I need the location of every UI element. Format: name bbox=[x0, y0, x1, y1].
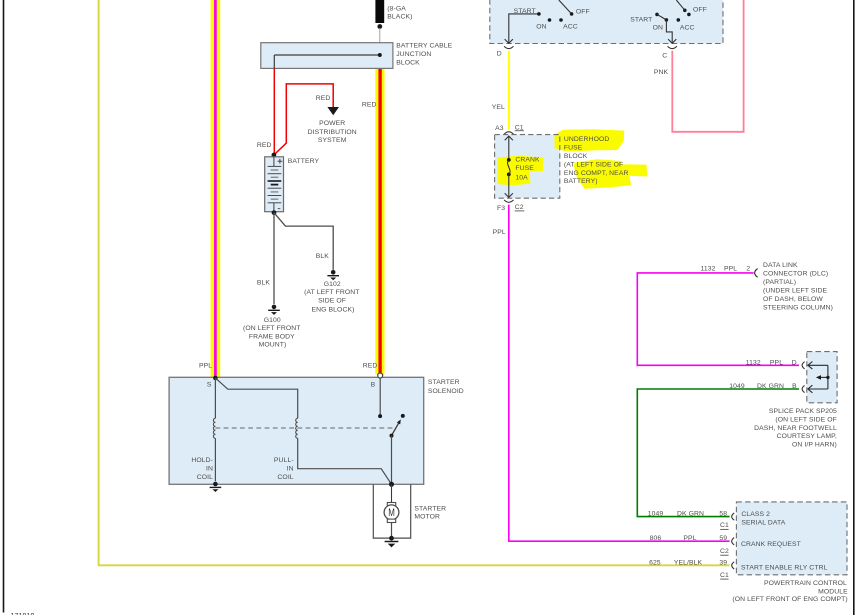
svg-text:10A: 10A bbox=[515, 175, 528, 182]
svg-text:806: 806 bbox=[650, 535, 662, 542]
svg-text:PPL: PPL bbox=[683, 535, 696, 542]
svg-text:C2: C2 bbox=[515, 204, 524, 211]
svg-text:PPL: PPL bbox=[770, 359, 783, 366]
svg-text:625: 625 bbox=[649, 559, 661, 566]
svg-text:ENG BLOCK): ENG BLOCK) bbox=[312, 306, 355, 313]
svg-text:STARTER: STARTER bbox=[428, 379, 460, 386]
svg-text:BLK: BLK bbox=[257, 280, 271, 287]
svg-text:(ON LEFT FRONT: (ON LEFT FRONT bbox=[243, 325, 301, 332]
svg-text:DISTRIBUTION: DISTRIBUTION bbox=[308, 129, 357, 136]
svg-text:FRAME BODY: FRAME BODY bbox=[249, 333, 295, 340]
svg-text:(UNDER LEFT SIDE: (UNDER LEFT SIDE bbox=[763, 288, 828, 295]
svg-text:POWER: POWER bbox=[319, 120, 345, 127]
svg-text:YEL: YEL bbox=[492, 104, 505, 111]
svg-text:BLOCK: BLOCK bbox=[564, 153, 588, 160]
svg-text:1132: 1132 bbox=[746, 359, 761, 366]
svg-text:IN: IN bbox=[206, 465, 213, 472]
svg-text:STARTER: STARTER bbox=[414, 505, 446, 512]
svg-text:C1: C1 bbox=[720, 572, 729, 579]
svg-text:SERIAL DATA: SERIAL DATA bbox=[741, 519, 785, 526]
svg-text:MODULE: MODULE bbox=[818, 589, 848, 596]
svg-text:CRANK REQUEST: CRANK REQUEST bbox=[741, 541, 801, 548]
svg-text:MOUNT): MOUNT) bbox=[259, 342, 287, 349]
svg-text:RED: RED bbox=[316, 95, 331, 102]
svg-text:PNK: PNK bbox=[654, 69, 669, 76]
svg-text:G102: G102 bbox=[324, 281, 341, 288]
svg-text:59: 59 bbox=[719, 535, 727, 542]
svg-text:S: S bbox=[207, 382, 212, 389]
svg-text:COURTESY LAMP,: COURTESY LAMP, bbox=[777, 433, 837, 440]
svg-text:UNDERHOOD: UNDERHOOD bbox=[564, 136, 609, 143]
svg-text:OFF: OFF bbox=[576, 8, 590, 15]
svg-text:PPL: PPL bbox=[724, 266, 737, 273]
svg-text:B: B bbox=[371, 382, 376, 389]
svg-text:(ON LEFT SIDE OF: (ON LEFT SIDE OF bbox=[775, 417, 837, 424]
svg-text:D: D bbox=[497, 51, 502, 58]
svg-text:DATA LINK: DATA LINK bbox=[763, 262, 798, 269]
svg-text:ON: ON bbox=[536, 24, 546, 31]
svg-text:RED: RED bbox=[257, 142, 272, 149]
svg-text:CRANK: CRANK bbox=[515, 157, 540, 164]
svg-text:BLACK): BLACK) bbox=[387, 14, 412, 21]
svg-text:SYSTEM: SYSTEM bbox=[318, 137, 347, 144]
svg-text:PPL: PPL bbox=[199, 362, 212, 369]
svg-text:START: START bbox=[630, 16, 652, 23]
svg-text:JUNCTION: JUNCTION bbox=[396, 51, 431, 58]
svg-text:C: C bbox=[662, 53, 667, 60]
svg-text:SOLENOID: SOLENOID bbox=[428, 388, 464, 395]
svg-text:G100: G100 bbox=[264, 317, 281, 324]
svg-text:(AT LEFT FRONT: (AT LEFT FRONT bbox=[304, 289, 359, 296]
svg-text:D: D bbox=[792, 359, 797, 366]
svg-text:START ENABLE RLY CTRL: START ENABLE RLY CTRL bbox=[741, 564, 828, 571]
svg-text:(ON LEFT FRONT OF ENG COMPT): (ON LEFT FRONT OF ENG COMPT) bbox=[732, 596, 847, 603]
svg-text:POWERTRAIN CONTROL: POWERTRAIN CONTROL bbox=[764, 580, 847, 587]
svg-text:START: START bbox=[514, 8, 536, 15]
svg-text:FUSE: FUSE bbox=[515, 165, 534, 172]
svg-text:CONNECTOR (DLC): CONNECTOR (DLC) bbox=[763, 271, 828, 278]
svg-text:HOLD-: HOLD- bbox=[191, 457, 213, 464]
svg-text:BLK: BLK bbox=[316, 253, 330, 260]
svg-text:MOTOR: MOTOR bbox=[414, 514, 440, 521]
svg-text:DASH, NEAR FOOTWELL: DASH, NEAR FOOTWELL bbox=[754, 425, 837, 432]
svg-text:BATTERY: BATTERY bbox=[288, 158, 320, 165]
svg-text:ENG COMPT, NEAR: ENG COMPT, NEAR bbox=[564, 170, 629, 177]
svg-text:M: M bbox=[388, 507, 395, 519]
svg-text:2: 2 bbox=[746, 266, 750, 273]
svg-text:58: 58 bbox=[719, 511, 727, 518]
svg-text:C1: C1 bbox=[720, 522, 729, 529]
svg-text:SPLICE PACK SP205: SPLICE PACK SP205 bbox=[769, 408, 837, 415]
svg-text:COIL: COIL bbox=[197, 474, 213, 481]
svg-text:1049: 1049 bbox=[648, 511, 664, 518]
svg-text:(AT LEFT SIDE OF: (AT LEFT SIDE OF bbox=[564, 161, 623, 168]
svg-text:PULL-: PULL- bbox=[274, 457, 294, 464]
svg-text:YEL/BLK: YEL/BLK bbox=[674, 559, 703, 566]
svg-text:C2: C2 bbox=[720, 548, 729, 555]
svg-text:SIDE OF: SIDE OF bbox=[318, 298, 346, 305]
svg-text:BLOCK: BLOCK bbox=[396, 59, 420, 66]
svg-text:OF DASH, BELOW: OF DASH, BELOW bbox=[763, 296, 823, 303]
svg-text:IN: IN bbox=[287, 465, 294, 472]
svg-text:PPL: PPL bbox=[493, 229, 506, 236]
svg-text:DK GRN: DK GRN bbox=[677, 511, 704, 518]
svg-text:RED: RED bbox=[363, 362, 378, 369]
svg-text:FUSE: FUSE bbox=[564, 144, 583, 151]
svg-text:STEERING COLUMN): STEERING COLUMN) bbox=[763, 305, 833, 312]
svg-text:39: 39 bbox=[719, 559, 727, 566]
svg-text:ON: ON bbox=[653, 25, 663, 32]
svg-text:COIL: COIL bbox=[277, 474, 293, 481]
svg-text:(PARTIAL): (PARTIAL) bbox=[763, 279, 796, 286]
svg-text:DK GRN: DK GRN bbox=[757, 383, 784, 390]
svg-text:BATTERY): BATTERY) bbox=[564, 178, 598, 185]
svg-text:ON I/P HARN): ON I/P HARN) bbox=[792, 441, 837, 448]
svg-text:B: B bbox=[792, 383, 797, 390]
svg-text:ACC: ACC bbox=[563, 24, 578, 31]
svg-text:(8-GA: (8-GA bbox=[387, 6, 406, 13]
svg-text:RED: RED bbox=[362, 102, 377, 109]
svg-text:1049: 1049 bbox=[729, 383, 745, 390]
svg-text:CLASS 2: CLASS 2 bbox=[741, 511, 770, 518]
svg-text:1132: 1132 bbox=[700, 266, 715, 273]
svg-text:F3: F3 bbox=[497, 205, 505, 212]
svg-text:OFF: OFF bbox=[693, 6, 707, 13]
svg-text:A3: A3 bbox=[495, 125, 504, 132]
svg-text:ACC: ACC bbox=[680, 25, 695, 32]
svg-text:BATTERY CABLE: BATTERY CABLE bbox=[396, 42, 452, 49]
